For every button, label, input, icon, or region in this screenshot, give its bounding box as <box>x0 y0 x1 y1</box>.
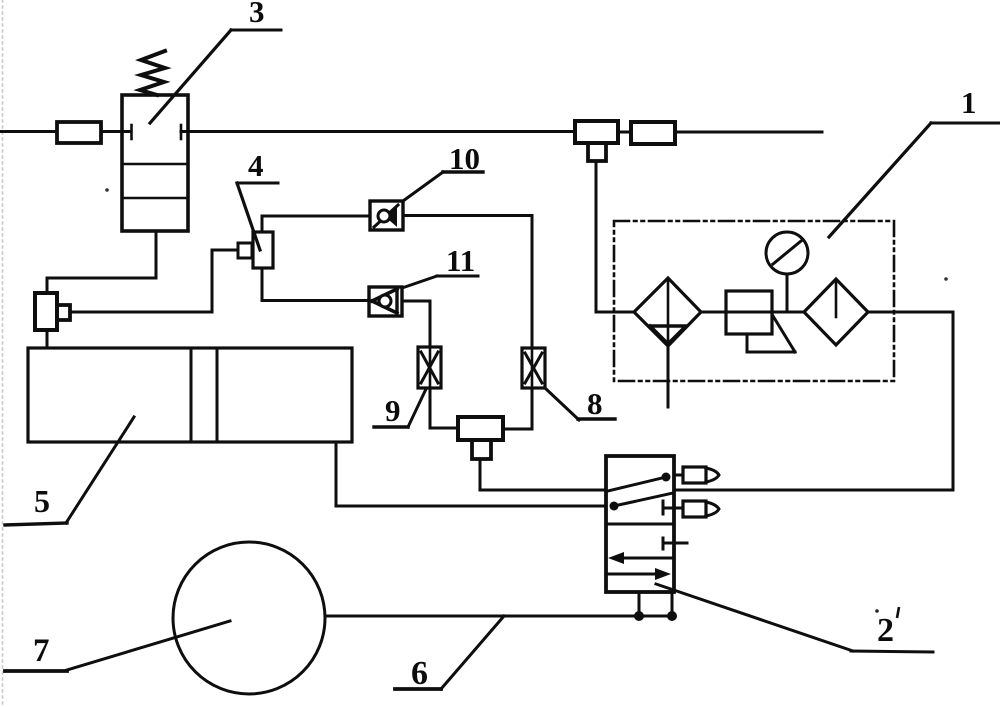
svg-text:6: 6 <box>411 655 428 692</box>
wire rail from valve 3 to tee <box>181 130 575 133</box>
svg-text:3: 3 <box>249 0 265 29</box>
wire shutoff 8 to block <box>503 388 532 429</box>
svg-text:4: 4 <box>248 148 264 183</box>
svg-text:5: 5 <box>34 483 50 519</box>
label 1 leader <box>829 123 999 237</box>
fitting F1 on top rail <box>57 122 101 143</box>
valve 4 body <box>253 232 273 268</box>
label 4 leader <box>237 183 278 250</box>
valve 2 blocked port upper <box>663 501 683 514</box>
filter drain line <box>667 346 670 407</box>
valve 2 bottom stubs <box>639 592 672 616</box>
shutoff valve 8 <box>522 348 545 388</box>
pressure gauge of FRL <box>766 232 808 312</box>
wire top rail left <box>0 130 57 133</box>
muffler M1 on valve 2 <box>674 467 719 483</box>
valve 2 body <box>606 456 674 592</box>
label 5 leader <box>5 417 134 525</box>
wire between tee and fitting F2 <box>618 131 631 134</box>
speck near FRL <box>944 277 948 281</box>
wire shutoff 9 to block <box>430 388 458 428</box>
wire filter to regulator <box>701 311 804 314</box>
speck near label 2 <box>875 609 879 613</box>
label 8 leader <box>545 388 615 420</box>
svg-text:2: 2 <box>877 612 894 649</box>
label 2 prime tick <box>897 607 899 618</box>
valve 2 flow path upper <box>608 473 671 492</box>
wire top rail right <box>675 131 822 134</box>
connector K1 <box>35 293 70 330</box>
wire rail into valve 3 <box>101 130 131 133</box>
junction block J1 <box>458 417 503 459</box>
paper edge dotted left margin <box>2 0 4 707</box>
label 10 leader <box>403 172 483 201</box>
svg-text:11: 11 <box>446 243 475 278</box>
label 3 leader <box>150 30 281 123</box>
valve 2 right arrow <box>606 568 671 580</box>
speck near valve 4 <box>105 188 109 192</box>
valve 2 flow path lower <box>610 493 674 511</box>
valve 2 left arrow <box>608 552 674 564</box>
check valve 11 <box>369 287 402 316</box>
wire tank 7 to valve 2 <box>325 615 672 618</box>
filter of FRL <box>634 278 701 346</box>
regulator of FRL <box>726 291 795 352</box>
label 6 leader <box>395 616 504 689</box>
FRL unit 1 dash-dot border <box>614 221 894 381</box>
cylinder 5 body <box>28 348 352 442</box>
tank 7 <box>173 542 325 694</box>
shutoff valve 9 <box>418 347 441 388</box>
fitting F2 on top rail <box>631 122 675 144</box>
valve 3 body <box>122 95 188 231</box>
valve 4 pilot square <box>238 243 252 258</box>
wire block J1 to valve 2 port <box>480 459 606 490</box>
label 9 leader <box>374 389 426 427</box>
label 2 leader <box>656 584 933 652</box>
wire connector K1 into cylinder 5 <box>46 330 49 348</box>
wire cylinder 5 to valve 2 port <box>336 442 606 506</box>
lubricator of FRL <box>804 279 868 345</box>
wire valve 4 top to check valve 10 <box>262 216 370 232</box>
valve 2 blocked port lower <box>663 538 687 549</box>
wire check valve 11 to shutoff 9 <box>402 301 430 347</box>
tee fitting T1 <box>575 121 618 161</box>
wire tee down into FRL <box>596 161 634 312</box>
label 11 leader <box>402 276 478 288</box>
check valve 10 <box>370 201 403 230</box>
svg-text:8: 8 <box>587 386 603 421</box>
svg-text:1: 1 <box>961 85 977 120</box>
label 7 leader <box>5 621 230 671</box>
svg-text:7: 7 <box>33 633 50 669</box>
svg-text:9: 9 <box>385 393 401 428</box>
muffler M2 on valve 2 <box>683 501 719 517</box>
node at tank line left <box>634 611 644 621</box>
node at tank line right <box>667 611 677 621</box>
wire connector K1 to valve 4 <box>70 250 238 312</box>
wire valve 4 bottom to check valve 11 <box>262 268 369 301</box>
wire FRL outlet to valve 2 <box>674 312 953 490</box>
wire check valve 10 to shutoff 8 <box>403 216 532 349</box>
svg-text:10: 10 <box>449 141 480 176</box>
wire valve 3 outlet down <box>47 231 156 293</box>
spring of valve 3 <box>140 51 165 95</box>
